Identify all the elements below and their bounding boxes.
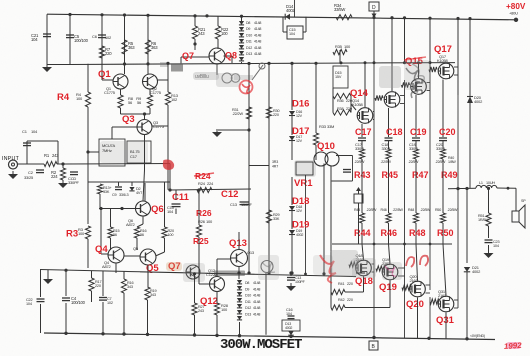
svg-text:.22/5W: .22/5W [435,160,446,164]
svg-text:R47: R47 [412,170,429,180]
svg-text:D13: D13 [245,313,251,317]
svg-text:1R/5W: 1R/5W [478,218,489,222]
svg-text:uvBllIu: uvBllIu [195,74,209,80]
svg-text:D9: D9 [246,27,250,31]
svg-text:C18: C18 [386,127,403,137]
svg-text:R48: R48 [409,228,426,238]
svg-text:15V: 15V [335,75,342,79]
svg-text:R4: R4 [57,92,70,103]
svg-text:C17: C17 [130,154,138,159]
svg-text:33K: 33K [273,217,280,221]
svg-text:R35: R35 [335,44,343,49]
svg-text:4V7: 4V7 [136,191,142,195]
svg-text:2163: 2163 [410,278,419,283]
svg-text:Q13: Q13 [229,238,247,249]
svg-text:224: 224 [51,174,58,179]
svg-text:4148: 4148 [253,300,260,304]
svg-text:4148: 4148 [254,40,261,44]
svg-text:4148: 4148 [254,52,261,56]
svg-text:R50: R50 [437,228,454,238]
svg-text:4002: 4002 [285,326,292,330]
svg-text:+80U: +80U [509,11,518,16]
svg-text:.22/5W: .22/5W [393,208,404,212]
svg-text:R1: R1 [44,153,50,158]
svg-text:D11: D11 [246,40,252,44]
svg-text:220: 220 [95,284,101,288]
svg-text:D12: D12 [245,306,251,310]
svg-text:R44: R44 [354,208,360,212]
svg-text:104: 104 [493,244,499,248]
svg-text:1/8W: 1/8W [448,160,456,164]
svg-text:4148: 4148 [254,46,261,50]
svg-text:343: 343 [150,293,156,297]
svg-text:D10: D10 [245,294,251,298]
svg-text:R42: R42 [338,298,344,302]
svg-text:100: 100 [221,31,228,36]
svg-text:100: 100 [76,96,83,101]
svg-text:Q31: Q31 [436,315,455,326]
svg-text:4148: 4148 [253,294,260,298]
svg-text:D8: D8 [245,281,249,285]
svg-text:3R3: 3R3 [272,160,278,164]
svg-text:4002: 4002 [286,8,295,13]
svg-text:4002: 4002 [472,269,481,274]
svg-text:104: 104 [31,37,38,42]
svg-text:R45: R45 [382,170,399,180]
svg-text:R26: R26 [196,208,212,218]
svg-text:Q3: Q3 [122,114,135,125]
svg-text:100: 100 [344,44,351,49]
svg-text:102: 102 [105,35,112,40]
svg-text:150PF: 150PF [241,202,253,207]
svg-text:C1775: C1775 [104,90,116,95]
svg-text:4148: 4148 [253,306,260,310]
svg-text:1992: 1992 [504,341,523,351]
svg-text:A872: A872 [126,222,136,227]
svg-text:C9: C9 [112,193,117,197]
svg-text:VR1: VR1 [294,178,313,189]
svg-text:300W.MOSFET: 300W.MOSFET [220,337,302,353]
svg-text:243: 243 [198,309,204,313]
svg-text:D13: D13 [246,52,252,56]
svg-text:R44: R44 [354,228,371,238]
svg-text:<0V(END): <0V(END) [470,334,485,338]
svg-text:.22/5W: .22/5W [408,160,419,164]
svg-text:243: 243 [52,153,59,158]
svg-text:33/25: 33/25 [24,175,34,180]
svg-text:Q8: Q8 [225,51,237,61]
svg-text:A872: A872 [102,264,112,269]
svg-text:4148: 4148 [254,27,261,31]
svg-text:4002: 4002 [296,233,303,237]
svg-text:R46: R46 [381,208,387,212]
svg-text:33K: 33K [103,190,110,194]
svg-text:C1775: C1775 [150,90,162,95]
svg-text:.22/5W: .22/5W [381,160,392,164]
svg-text:104: 104 [289,32,295,36]
svg-text:4148: 4148 [253,287,260,291]
svg-text:D: D [372,5,376,11]
svg-text:R46: R46 [381,228,398,238]
svg-text:Q4: Q4 [95,244,108,255]
svg-text:243: 243 [198,31,205,36]
svg-text:104: 104 [167,209,174,214]
svg-text:Q10: Q10 [317,141,335,152]
svg-text:R24: R24 [198,181,206,186]
svg-text:363: 363 [151,45,158,50]
svg-text:56: 56 [113,233,117,237]
svg-text:33/5W: 33/5W [334,7,345,12]
svg-text:4002: 4002 [474,99,483,104]
svg-text:2163: 2163 [438,293,447,298]
svg-text:4148: 4148 [253,313,260,317]
svg-text:Q13: Q13 [247,250,255,255]
svg-text:33M: 33M [327,124,334,129]
svg-text:100: 100 [206,219,213,224]
svg-text:C13: C13 [230,202,238,207]
svg-text:L1: L1 [479,181,483,185]
svg-text:R33: R33 [319,124,327,129]
svg-text:C17: C17 [355,127,372,137]
svg-text:D9: D9 [245,287,249,291]
svg-text:D16: D16 [292,99,309,110]
svg-text:R50: R50 [435,208,441,212]
svg-text:343: 343 [127,285,133,289]
svg-text:102: 102 [107,301,113,305]
svg-text:R25: R25 [193,236,209,246]
svg-text:Q1: Q1 [98,69,111,80]
svg-text:D10: D10 [246,33,252,37]
svg-text:12V: 12V [296,139,303,143]
svg-text:Q7: Q7 [182,51,194,61]
svg-text:220: 220 [347,282,353,286]
svg-text:R41: R41 [338,282,344,286]
svg-text:Q19: Q19 [379,282,397,293]
svg-text:4R7: 4R7 [272,165,278,169]
svg-text:224: 224 [207,181,214,186]
svg-text:220: 220 [273,113,279,117]
svg-text:C19: C19 [410,127,427,137]
svg-text:D8: D8 [246,21,250,25]
svg-text:104: 104 [31,129,38,134]
svg-text:C20: C20 [439,127,456,137]
svg-text:220: 220 [347,298,353,302]
svg-text:Q20: Q20 [406,299,424,310]
svg-text:100: 100 [221,307,228,312]
svg-text:.22/5W: .22/5W [447,208,458,212]
svg-text:100: 100 [78,231,85,236]
svg-text:100: 100 [168,233,174,237]
svg-text:12V: 12V [296,209,303,213]
svg-text:33/6.3: 33/6.3 [119,193,128,197]
svg-text:12V: 12V [296,114,303,118]
svg-text:4148: 4148 [254,21,261,25]
svg-text:56: 56 [140,233,144,237]
svg-text:R48: R48 [408,208,414,212]
svg-text:D12: D12 [246,46,252,50]
svg-text:10UH: 10UH [486,181,495,185]
svg-text:220: 220 [105,51,112,56]
svg-text:100PF: 100PF [295,280,306,284]
svg-text:C12: C12 [221,189,238,200]
svg-text:Q6: Q6 [151,204,164,215]
svg-text:7MHz: 7MHz [102,148,112,153]
svg-text:100/100: 100/100 [74,38,89,43]
svg-text:.22/5W: .22/5W [420,208,431,212]
svg-text:363: 363 [128,45,135,50]
svg-text:330PF: 330PF [68,180,80,185]
svg-text:100/100: 100/100 [71,300,86,305]
svg-text:K1058: K1058 [352,102,364,107]
svg-text:C11: C11 [172,192,190,203]
svg-text:4148: 4148 [253,281,260,285]
svg-text:R38: R38 [337,107,343,111]
svg-text:R36: R36 [337,99,343,103]
svg-text:104: 104 [26,302,32,306]
svg-text:4148: 4148 [254,33,261,37]
svg-text:102: 102 [171,97,178,102]
svg-text:.22/5W: .22/5W [354,160,365,164]
svg-text:D11: D11 [245,300,251,304]
svg-text:R3: R3 [66,229,78,240]
svg-text:.22/2W: .22/2W [232,112,243,116]
svg-text:.22/5W: .22/5W [366,208,377,212]
